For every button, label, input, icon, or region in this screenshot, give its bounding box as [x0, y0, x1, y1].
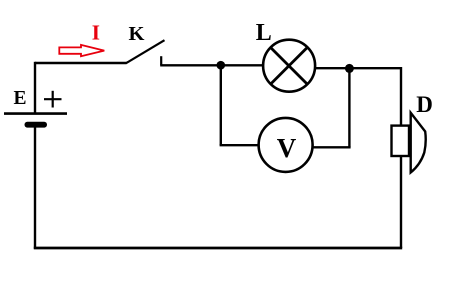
wire: left junction down to voltmeter branch — [220, 65, 222, 145]
lamp L: X cross line 2 — [270, 47, 307, 84]
speaker D: cone — [411, 113, 426, 173]
switch K blade (open) — [126, 40, 165, 63]
svg-text:D: D — [416, 92, 433, 117]
svg-text:V: V — [277, 133, 297, 163]
wire: right junction down to voltmeter branch — [348, 68, 350, 147]
wire: right vertical from speaker down to bottom rail — [400, 156, 402, 248]
wire: lamp right to right junction and top-right corner — [316, 68, 401, 126]
voltmeter V: circle — [259, 118, 313, 172]
node: left junction dot — [217, 61, 226, 70]
svg-text:L: L — [256, 20, 272, 46]
switch K right contact tick — [160, 56, 162, 65]
plus sign of battery — [44, 91, 62, 108]
lamp L: circle — [263, 40, 315, 92]
wire: left vertical from top corner down to battery top plate — [34, 62, 36, 113]
wire: voltmeter branch right horizontal — [313, 146, 350, 148]
battery E: bottom (short thick) plate — [25, 122, 48, 128]
wire: switch contact to left junction, then to lamp — [160, 64, 262, 66]
svg-text:E: E — [14, 88, 27, 109]
wire: top-left horizontal from battery corner to switch — [35, 62, 127, 64]
wire: voltmeter branch left horizontal — [220, 144, 259, 146]
wire: left vertical from battery bottom plate down to bottom rail — [34, 127, 36, 249]
wire: bottom rail — [34, 247, 402, 250]
lamp L: X cross line 1 — [270, 47, 307, 84]
svg-text:K: K — [129, 23, 145, 45]
current arrow (red outline) — [59, 45, 104, 56]
svg-text:I: I — [92, 20, 100, 44]
battery E: top (long thin) plate — [4, 112, 67, 115]
speaker D: rectangle — [392, 126, 410, 156]
node: right junction dot — [345, 64, 354, 73]
